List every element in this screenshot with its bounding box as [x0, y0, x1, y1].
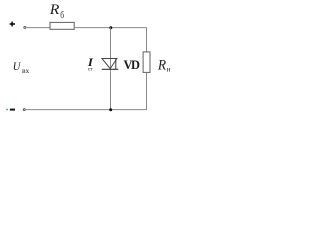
svg-text:б: б — [60, 10, 64, 21]
svg-text:ст: ст — [88, 67, 93, 73]
wire top middle — [74, 27, 147, 29]
minus terminal label dot — [6, 109, 7, 110]
svg-text:VD: VD — [124, 58, 140, 72]
resistor R2 load body — [143, 52, 150, 73]
plus terminal label — [10, 22, 15, 27]
input terminal bottom — [23, 109, 25, 111]
wire right branch lower — [146, 72, 148, 109]
wire bottom — [26, 109, 147, 111]
svg-text:вх: вх — [22, 66, 30, 75]
wire zener branch — [110, 28, 112, 110]
resistor R1 body — [50, 22, 74, 29]
svg-text:U: U — [13, 61, 21, 73]
svg-text:R: R — [49, 2, 60, 18]
wire top left — [26, 27, 50, 29]
node junction top — [109, 26, 112, 29]
input terminal top — [24, 26, 26, 28]
svg-text:R: R — [157, 58, 166, 74]
zener diode VD triangle — [102, 59, 117, 69]
svg-text:н: н — [167, 65, 171, 74]
minus terminal label dash — [10, 109, 15, 111]
wire right branch upper — [146, 28, 148, 52]
zener diode VD tick — [115, 59, 117, 69]
node junction bottom — [109, 108, 112, 111]
zener diode VD cathode bar — [102, 68, 119, 70]
